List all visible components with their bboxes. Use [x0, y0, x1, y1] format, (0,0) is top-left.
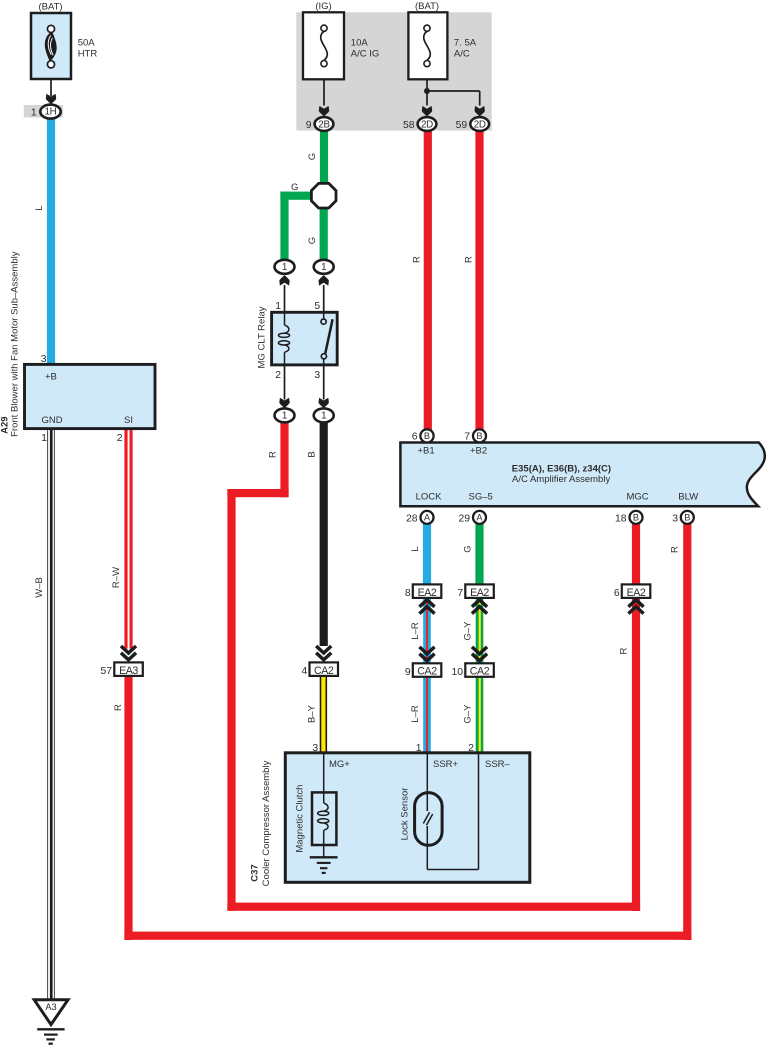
svg-text:EA2: EA2	[418, 587, 437, 599]
svg-text:A/C Amplifier Assembly: A/C Amplifier Assembly	[512, 474, 610, 485]
svg-text:28: 28	[406, 513, 418, 524]
svg-text:6: 6	[614, 588, 620, 599]
svg-text:CA2: CA2	[417, 666, 437, 678]
svg-text:R: R	[669, 546, 680, 553]
svg-text:B: B	[476, 431, 482, 441]
svg-text:CA2: CA2	[314, 665, 334, 677]
svg-text:+B: +B	[45, 372, 57, 383]
svg-text:A/C IG: A/C IG	[351, 48, 380, 59]
svg-text:1: 1	[321, 411, 326, 422]
svg-text:2: 2	[468, 743, 474, 754]
svg-text:C37: C37	[249, 864, 260, 881]
svg-text:50A: 50A	[78, 37, 96, 48]
svg-text:L–R: L–R	[410, 622, 421, 640]
svg-text:CA2: CA2	[470, 666, 490, 678]
svg-text:G: G	[307, 153, 318, 160]
svg-text:MGC: MGC	[627, 492, 649, 503]
svg-text:9: 9	[405, 667, 411, 678]
svg-text:59: 59	[456, 120, 468, 131]
svg-text:R: R	[463, 256, 474, 263]
svg-text:1H: 1H	[45, 107, 57, 118]
svg-text:EA3: EA3	[119, 665, 138, 677]
svg-text:(BAT): (BAT)	[38, 2, 62, 13]
svg-text:58: 58	[403, 120, 415, 131]
svg-text:R: R	[113, 704, 124, 711]
svg-text:MG+: MG+	[329, 759, 350, 770]
svg-text:L: L	[34, 205, 45, 210]
svg-text:B: B	[424, 431, 430, 441]
svg-text:1: 1	[275, 301, 281, 312]
svg-text:3: 3	[672, 513, 678, 524]
svg-text:L–R: L–R	[410, 705, 421, 723]
svg-text:EA2: EA2	[470, 587, 489, 599]
svg-text:B–Y: B–Y	[307, 704, 318, 723]
svg-text:B: B	[633, 513, 639, 523]
svg-text:3: 3	[312, 743, 318, 754]
svg-text:Cooler Compressor Assembly: Cooler Compressor Assembly	[261, 760, 272, 886]
svg-text:3: 3	[41, 354, 47, 365]
svg-text:1: 1	[282, 411, 287, 422]
svg-text:SI: SI	[124, 415, 133, 426]
svg-text:A: A	[424, 513, 431, 523]
svg-text:9: 9	[306, 120, 312, 131]
svg-text:2B: 2B	[318, 119, 330, 130]
svg-text:SG–5: SG–5	[469, 492, 493, 503]
svg-text:Lock Sensor: Lock Sensor	[400, 788, 411, 841]
svg-text:G–Y: G–Y	[463, 704, 474, 724]
svg-text:1: 1	[282, 262, 287, 273]
svg-text:G: G	[291, 182, 298, 193]
svg-text:10A: 10A	[351, 37, 369, 48]
svg-text:7: 7	[457, 588, 463, 599]
svg-text:1: 1	[41, 433, 47, 444]
svg-text:6: 6	[412, 432, 418, 443]
svg-text:B: B	[307, 451, 318, 457]
svg-text:4: 4	[302, 666, 308, 677]
svg-text:1: 1	[416, 743, 422, 754]
svg-text:GND: GND	[42, 415, 63, 426]
svg-text:HTR: HTR	[78, 48, 98, 59]
svg-text:EA2: EA2	[627, 587, 646, 599]
svg-text:10: 10	[452, 667, 464, 678]
svg-text:SSR+: SSR+	[433, 759, 459, 770]
svg-text:+B2: +B2	[470, 446, 487, 457]
svg-text:LOCK: LOCK	[416, 492, 443, 503]
svg-text:29: 29	[458, 513, 470, 524]
svg-text:R: R	[618, 647, 629, 654]
svg-text:7: 7	[464, 432, 470, 443]
svg-text:Magnetic Clutch: Magnetic Clutch	[295, 785, 306, 853]
svg-text:B: B	[684, 513, 690, 523]
svg-text:2: 2	[117, 433, 123, 444]
svg-text:3: 3	[314, 370, 320, 381]
svg-text:5: 5	[314, 301, 320, 312]
svg-text:+B1: +B1	[418, 446, 435, 457]
svg-text:G–Y: G–Y	[463, 621, 474, 641]
svg-text:57: 57	[101, 666, 113, 677]
svg-text:A3: A3	[45, 1002, 56, 1012]
svg-text:R–W: R–W	[111, 567, 122, 588]
svg-text:18: 18	[615, 513, 627, 524]
svg-text:Front Blower with Fan Motor Su: Front Blower with Fan Motor Sub–Assembly	[10, 251, 21, 437]
svg-text:(IG): (IG)	[315, 1, 331, 12]
svg-text:SSR–: SSR–	[485, 759, 511, 770]
svg-text:G: G	[307, 237, 318, 244]
svg-text:MG CLT Relay: MG CLT Relay	[257, 306, 268, 368]
svg-text:8: 8	[405, 588, 411, 599]
svg-text:G: G	[463, 545, 474, 552]
svg-text:2D: 2D	[421, 119, 433, 130]
svg-text:R: R	[411, 256, 422, 263]
svg-text:L: L	[410, 546, 421, 551]
svg-text:1: 1	[31, 107, 37, 118]
svg-text:A: A	[476, 513, 483, 523]
svg-text:W–B: W–B	[34, 577, 45, 598]
svg-text:(BAT): (BAT)	[415, 1, 439, 12]
svg-text:2D: 2D	[474, 119, 486, 130]
svg-text:A/C: A/C	[454, 48, 470, 59]
svg-text:2: 2	[275, 370, 281, 381]
svg-text:1: 1	[321, 262, 326, 273]
svg-text:7. 5A: 7. 5A	[454, 37, 477, 48]
svg-text:R: R	[267, 451, 278, 458]
svg-text:BLW: BLW	[678, 492, 698, 503]
